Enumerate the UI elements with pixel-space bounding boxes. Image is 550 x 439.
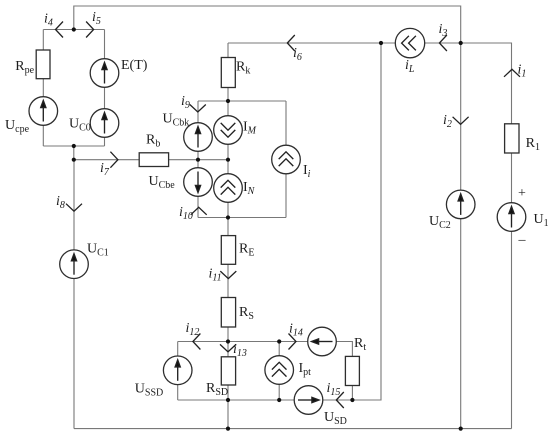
- current arrow i15: [336, 392, 344, 408]
- wire i7 to Rb: [74, 159, 139, 161]
- wire Ipt top: [278, 342, 280, 356]
- svg-text:Rpe: Rpe: [15, 59, 34, 76]
- wire to E(T) top: [104, 30, 106, 59]
- wire UC2 to bottom rail: [460, 219, 462, 429]
- wire Rk top: [227, 43, 229, 58]
- resistor RS: [221, 298, 235, 328]
- svg-text:RS: RS: [239, 305, 254, 322]
- wire Rt bottom: [351, 386, 353, 401]
- current arrow i6: [287, 35, 295, 51]
- current arrow i10: [191, 207, 207, 215]
- svg-text:USSD: USSD: [135, 382, 163, 399]
- source IM circle: [214, 116, 243, 145]
- arrow of source UCbe (down): [195, 172, 200, 193]
- wire to RE: [227, 218, 229, 236]
- wire RS to node: [227, 327, 229, 342]
- svg-text:IN: IN: [243, 180, 256, 197]
- wire i2 down to UC2: [460, 43, 462, 190]
- resistor RSD: [221, 357, 235, 385]
- current arrow i14: [289, 334, 297, 350]
- source Ipt circle: [265, 356, 294, 385]
- source Ucpe circle: [29, 97, 58, 126]
- wire Rk bottom: [227, 88, 229, 116]
- svg-text:Rb: Rb: [146, 133, 160, 150]
- wire Ii bottom: [285, 174, 287, 218]
- source Ii circle: [272, 145, 301, 174]
- current arrow i3: [439, 35, 447, 51]
- source iL circle: [395, 28, 424, 57]
- wire circle to Rt corner: [336, 342, 352, 357]
- current arrow i2: [453, 117, 469, 125]
- svg-text:i4: i4: [44, 12, 53, 29]
- node i7/i8 junction: [72, 158, 76, 162]
- wire iL right to node: [425, 42, 461, 44]
- source UCbe circle: [184, 168, 213, 197]
- svg-text:i5: i5: [92, 10, 101, 27]
- arrow of source USD (right): [298, 397, 319, 402]
- node bottom rail RSD junction: [226, 427, 230, 431]
- svg-text:i11: i11: [209, 267, 222, 284]
- source UCbk circle: [184, 123, 213, 152]
- wire UC0 bottom: [104, 137, 106, 146]
- node Ucpe/UC0 junction: [72, 144, 76, 148]
- current arrow i9: [190, 105, 206, 113]
- source IN circle: [214, 174, 243, 203]
- resistor Rk: [221, 58, 235, 88]
- wire Rpe to Ucpe: [42, 79, 44, 97]
- node i12/i13/i14 junction: [226, 339, 230, 343]
- svg-text:Ii: Ii: [303, 163, 311, 180]
- svg-text:Rk: Rk: [236, 60, 250, 77]
- wire USSD bottom: [177, 385, 179, 400]
- arrow of source Ut (left): [312, 339, 333, 344]
- node RSD bottom junction: [226, 398, 230, 402]
- source Ut circle: [308, 327, 337, 356]
- current arrow i1: [504, 69, 520, 77]
- svg-text:IM: IM: [243, 120, 257, 137]
- wire RE to RS i11: [227, 264, 229, 297]
- current arrow i4: [56, 22, 64, 38]
- chevrons of source IM (down): [221, 123, 236, 137]
- node Ipt top junction: [277, 339, 281, 343]
- chevrons of source Ipt (up): [272, 362, 287, 376]
- wire transistor top horizontal: [198, 100, 286, 102]
- wire node to R1 branch: [461, 43, 512, 124]
- svg-text:R1: R1: [526, 136, 540, 153]
- svg-text:UC1: UC1: [87, 242, 109, 259]
- svg-text:i9: i9: [181, 94, 190, 111]
- svg-text:i13: i13: [233, 342, 247, 359]
- source USSD circle: [163, 356, 192, 385]
- current arrow i11: [220, 271, 236, 279]
- svg-text:E(T): E(T): [121, 58, 148, 73]
- wire UCbe down i10: [197, 196, 199, 217]
- source UC0 circle: [90, 109, 119, 138]
- node Rk bottom junction: [226, 99, 230, 103]
- wire RSD bottom: [227, 385, 229, 400]
- wire IN bottom: [227, 202, 229, 217]
- resistor Rt: [345, 356, 359, 385]
- node Rt bottom junction: [350, 398, 354, 402]
- chevrons of source Ii (up): [279, 152, 294, 166]
- node bottom rail UC2 junction: [459, 427, 463, 431]
- arrow of source Ucpe: [41, 101, 46, 122]
- resistor R1: [505, 124, 519, 153]
- resistor Rb: [139, 153, 168, 167]
- svg-text:RE: RE: [239, 242, 254, 259]
- wire USD left: [178, 399, 295, 401]
- svg-text:+: +: [518, 186, 526, 201]
- node IM/IN junction: [226, 158, 230, 162]
- node i3 junction: [459, 41, 463, 45]
- wire IM to mid node: [227, 144, 229, 173]
- arrow of source E(T): [102, 63, 107, 84]
- wire left branch to Rpe: [42, 30, 44, 51]
- wire Ii top: [285, 101, 287, 145]
- wire bottom rail: [74, 428, 512, 430]
- current arrow i7: [110, 152, 118, 168]
- svg-text:iL: iL: [405, 58, 415, 75]
- svg-text:i10: i10: [179, 205, 193, 222]
- current arrow i8: [66, 204, 82, 212]
- svg-text:–: –: [518, 233, 527, 248]
- source UC2 circle: [446, 190, 475, 219]
- wire i8 down to UC1: [73, 160, 75, 250]
- wire top rail: [74, 6, 461, 43]
- wire i4/i5 horizontal: [43, 29, 104, 31]
- arrow of source UC2: [458, 194, 463, 215]
- wire R1 to U1: [511, 153, 513, 203]
- svg-text:i15: i15: [327, 381, 341, 398]
- svg-text:i7: i7: [100, 161, 110, 178]
- wire RSD node to bottom rail: [227, 400, 229, 429]
- source USD circle: [294, 386, 323, 415]
- wire i13 to RSD: [227, 342, 229, 357]
- wire E(T) to UC0: [104, 87, 106, 108]
- node emitter junction: [226, 215, 230, 219]
- current arrow i5: [86, 22, 94, 38]
- source E(T) circle: [90, 59, 119, 88]
- svg-text:USD: USD: [324, 410, 347, 427]
- wire USSD branch: [177, 342, 179, 357]
- arrow of source UCbk: [195, 127, 200, 148]
- svg-text:Ipt: Ipt: [299, 361, 312, 378]
- wire node drop: [73, 146, 75, 160]
- svg-text:i1: i1: [518, 63, 527, 80]
- node Ipt bottom junction: [277, 398, 281, 402]
- wire mid node to UCbe: [197, 160, 199, 168]
- wire i12/i14 horizontal: [178, 341, 308, 343]
- svg-text:i2: i2: [443, 113, 452, 130]
- svg-text:Rt: Rt: [354, 336, 366, 353]
- svg-text:Ucpe: Ucpe: [5, 118, 30, 135]
- svg-text:i3: i3: [439, 22, 448, 39]
- svg-text:UC2: UC2: [429, 214, 451, 231]
- wire UC1 to bottom rail: [73, 278, 75, 428]
- resistor Rpe: [36, 50, 50, 79]
- svg-text:UC0: UC0: [69, 117, 91, 134]
- chevrons of source IN (up): [221, 180, 236, 194]
- wire USD right to riser: [323, 43, 381, 400]
- wire Rb to base node: [169, 159, 228, 161]
- arrow of source USSD: [175, 360, 180, 381]
- resistor RE: [221, 236, 235, 265]
- arrow of source U1: [509, 207, 514, 228]
- wire Ucpe bottom: [42, 125, 44, 146]
- wire bottom connect left pair: [43, 145, 104, 147]
- wire i6 horizontal: [228, 42, 395, 44]
- source UC1 circle: [60, 250, 89, 279]
- node UCbk/UCbe junction: [196, 158, 200, 162]
- svg-text:i6: i6: [293, 46, 302, 63]
- wire transistor bottom horizontal: [198, 217, 286, 219]
- wire U1 to bottom rail: [511, 231, 513, 428]
- wire Ipt bottom: [278, 384, 280, 400]
- node top i4/i5 junction: [72, 27, 76, 31]
- svg-text:i14: i14: [289, 322, 303, 339]
- source U1 circle: [497, 203, 526, 232]
- svg-text:i12: i12: [186, 321, 200, 338]
- wire i9 to UCbk: [197, 101, 199, 123]
- svg-text:U1: U1: [534, 212, 549, 229]
- wire UCbk to mid node: [197, 151, 199, 159]
- svg-text:i8: i8: [56, 194, 65, 211]
- chevrons of source iL (left): [402, 36, 416, 51]
- current arrow i12: [193, 334, 201, 350]
- svg-text:UCbk: UCbk: [163, 112, 190, 129]
- node riser top junction: [379, 41, 383, 45]
- arrow of source UC0: [102, 113, 107, 134]
- svg-text:UCbe: UCbe: [149, 174, 176, 191]
- arrow of source UC1: [71, 254, 76, 275]
- current arrow i13: [220, 344, 236, 352]
